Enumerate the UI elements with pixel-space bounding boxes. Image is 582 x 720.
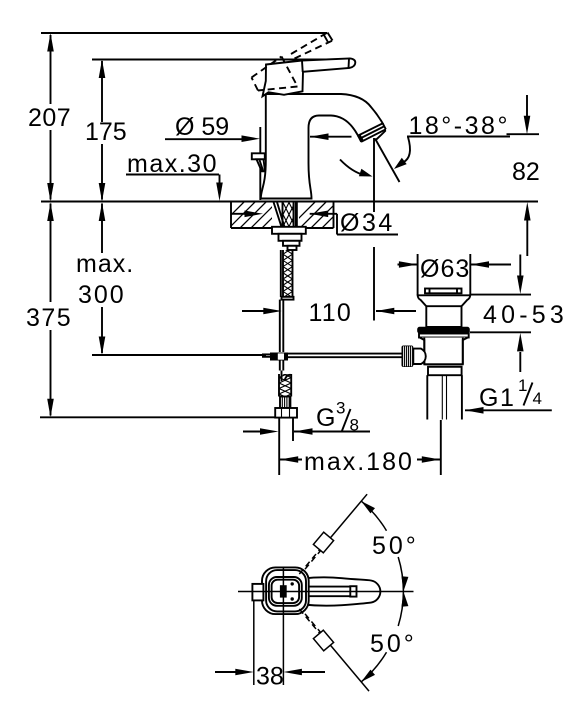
svg-text:G1: G1 (479, 384, 515, 412)
svg-text:50°: 50° (370, 630, 417, 658)
svg-text:8: 8 (350, 416, 359, 435)
svg-text:1: 1 (518, 376, 527, 395)
svg-text:375: 375 (26, 304, 72, 332)
svg-text:40-53: 40-53 (483, 301, 568, 329)
svg-text:110: 110 (309, 299, 352, 327)
svg-text:175: 175 (85, 118, 127, 146)
svg-text:4: 4 (533, 389, 542, 408)
svg-text:max.180: max.180 (304, 448, 414, 476)
svg-text:207: 207 (28, 104, 71, 132)
svg-text:Ø 59: Ø 59 (175, 113, 229, 141)
svg-text:38: 38 (256, 663, 284, 691)
svg-text:50°: 50° (372, 532, 419, 560)
svg-text:max.: max. (76, 250, 134, 278)
svg-text:300: 300 (78, 281, 126, 309)
svg-text:G: G (316, 404, 335, 432)
svg-text:82: 82 (512, 158, 540, 186)
svg-text:Ø34: Ø34 (340, 209, 395, 237)
svg-text:Ø63: Ø63 (420, 255, 470, 283)
svg-text:3: 3 (336, 399, 345, 418)
